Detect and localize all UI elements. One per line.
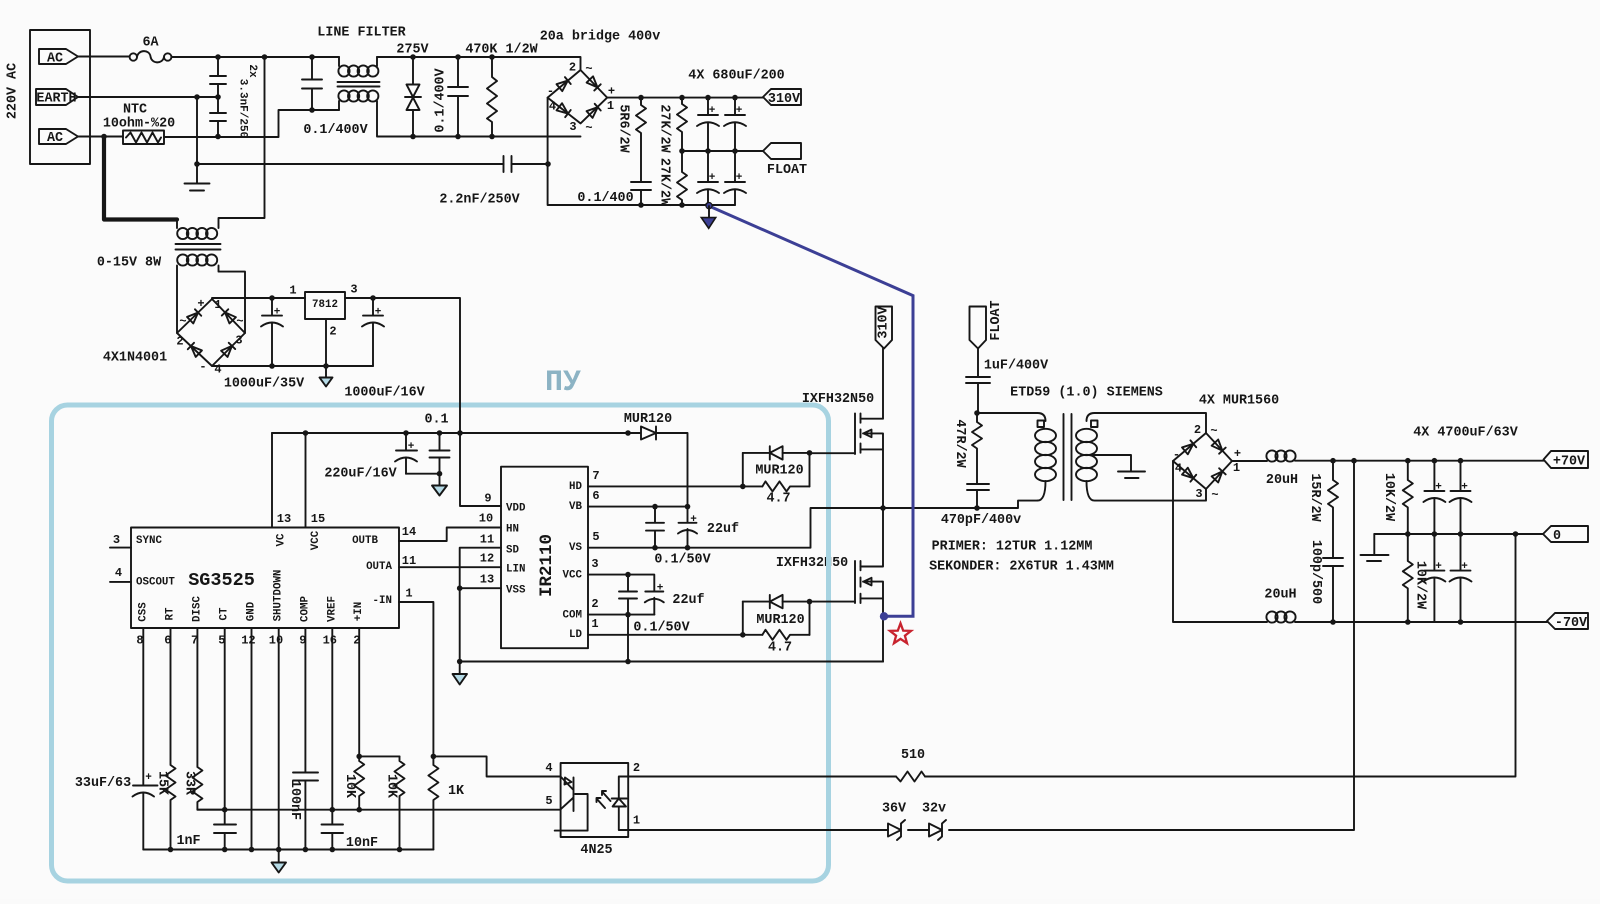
svg-text:100p/500: 100p/500	[1308, 540, 1323, 604]
wire zeners link	[908, 829, 929, 831]
annotation red star	[890, 623, 911, 643]
svg-text:-IN: -IN	[373, 595, 392, 607]
svg-text:1: 1	[591, 617, 598, 631]
svg-text:5: 5	[545, 794, 552, 808]
svg-text:15R/2W: 15R/2W	[1307, 473, 1322, 522]
svg-text:-: -	[547, 85, 554, 99]
capacitor 220uF/16V	[396, 433, 417, 474]
svg-text:14: 14	[402, 525, 416, 539]
svg-text:HN: HN	[506, 524, 519, 536]
svg-text:0: 0	[1553, 529, 1561, 544]
svg-text:33uF/63: 33uF/63	[75, 776, 131, 791]
transistor Q2 drain lead	[861, 508, 884, 567]
resistor 15R/2W	[1328, 461, 1338, 558]
pin 2 +IN down	[358, 628, 360, 756]
svg-text:ETD59 (1.0) SIEMENS: ETD59 (1.0) SIEMENS	[1010, 386, 1163, 401]
port FLOAT (vertical tag)	[970, 307, 987, 349]
annotation navy junction dot at arrow	[706, 203, 712, 209]
svg-text:+: +	[1234, 447, 1241, 461]
wire EARTH drop	[196, 97, 198, 164]
svg-text:COM: COM	[563, 610, 582, 622]
fuse F1 6A	[130, 53, 137, 60]
svg-text:220V AC: 220V AC	[6, 63, 21, 119]
pin 2 COM wire	[588, 614, 654, 616]
svg-text:22uf: 22uf	[707, 522, 739, 537]
port 310V	[763, 89, 801, 105]
bridge 1N4001 diode bottom-right	[221, 343, 235, 357]
svg-text:+: +	[1435, 482, 1442, 494]
wire -IN down	[399, 602, 433, 756]
svg-text:MUR120: MUR120	[756, 613, 804, 628]
wire aux bridge minus rail	[212, 365, 373, 368]
bridge rectifier 4X MUR1560 diamond	[1173, 433, 1232, 489]
svg-text:SHUTDOWN: SHUTDOWN	[273, 570, 285, 622]
svg-text:+: +	[197, 297, 204, 311]
svg-text:OUTA: OUTA	[366, 561, 392, 573]
svg-text:6A: 6A	[142, 36, 159, 51]
capacitor 4700uF/63V #2	[1451, 461, 1471, 534]
inductor 20uH upper	[1266, 450, 1277, 461]
line filter choke core	[338, 82, 380, 87]
pin 7 HD wire	[588, 485, 762, 487]
inductor line filter choke top winding	[338, 57, 340, 66]
wire earth line to 2.2nF	[197, 163, 504, 165]
svg-text:0.1/50V: 0.1/50V	[654, 553, 711, 568]
resistor 27K/2W lower	[677, 151, 687, 205]
svg-text:CSS: CSS	[137, 602, 149, 622]
transistor Q2 body-source leads	[861, 582, 884, 662]
wire choke lower left	[338, 101, 340, 110]
pin 12 GND	[251, 628, 253, 850]
svg-text:+: +	[1435, 561, 1442, 573]
svg-text:2x: 2x	[246, 64, 258, 78]
resistor 10K/2W upper	[1403, 461, 1413, 534]
svg-text:4: 4	[115, 566, 122, 580]
inductor line filter choke bottom winding	[338, 90, 349, 101]
resistor 4.7 high side	[762, 481, 809, 491]
annotation arrow at cap bank	[708, 205, 710, 217]
svg-text:16: 16	[323, 634, 337, 648]
svg-text:3: 3	[350, 283, 357, 297]
svg-text:+IN: +IN	[353, 602, 365, 621]
svg-text:15K: 15K	[155, 771, 170, 796]
transistor Q1 drain lead	[861, 349, 884, 419]
transformer T1 core	[176, 244, 221, 250]
svg-text:IR2110: IR2110	[537, 534, 557, 597]
wire AC2 rail	[164, 110, 339, 137]
capacitor 22uf low side	[645, 592, 663, 615]
svg-text:0.1/400: 0.1/400	[577, 191, 633, 206]
svg-text:27K/2W: 27K/2W	[657, 158, 672, 207]
annotation navy line	[709, 206, 913, 616]
svg-text:310V: 310V	[768, 92, 801, 107]
resistor 5R6/2W	[636, 98, 646, 182]
svg-text:11: 11	[402, 554, 416, 568]
pin 7 DISC with resistor 33R	[192, 628, 224, 810]
svg-text:5R6/2W: 5R6/2W	[616, 104, 631, 153]
wire +IN node link	[359, 755, 399, 757]
port +70V	[1544, 451, 1589, 468]
resistor 27K/2W upper	[677, 98, 687, 151]
transistor Q1 body arrow	[863, 430, 873, 438]
bridge 20A diode top-right	[587, 76, 601, 90]
capacitor 1000uF/16V	[363, 298, 383, 366]
capacitor 0.1/50V high side	[646, 507, 664, 548]
svg-text:1: 1	[405, 587, 412, 601]
wire 0V rail	[1374, 533, 1543, 535]
svg-text:10: 10	[479, 512, 493, 526]
svg-text:100nF: 100nF	[287, 780, 302, 820]
transformer T2 secondary bottom lead	[1087, 481, 1207, 501]
resistor 10K (left)	[354, 756, 364, 809]
capacitor 680uF/200 #1 top	[698, 98, 718, 151]
svg-text:3: 3	[1195, 487, 1202, 501]
transformer T2 primary polarity square	[1038, 421, 1045, 428]
wire 2.2nF to bridge minus	[512, 163, 549, 165]
svg-text:12: 12	[241, 634, 255, 648]
svg-text:SG3525: SG3525	[188, 570, 255, 591]
wire ground rail IR2110	[460, 661, 883, 663]
capacitor 1uF/400V	[966, 349, 990, 414]
svg-text:20uH: 20uH	[1266, 473, 1298, 488]
wire 7812 out to PU	[345, 298, 460, 433]
varistor 275V	[405, 57, 421, 137]
capacitor 4700uF/63V #4	[1451, 534, 1471, 622]
bridge 20A diode top-left	[557, 77, 571, 91]
svg-text:+: +	[375, 307, 382, 319]
pin 5 CT with capacitor 1nF	[214, 628, 236, 850]
svg-text:1: 1	[633, 814, 640, 828]
port AC (bottom)	[39, 129, 78, 144]
svg-text:+: +	[657, 583, 664, 595]
svg-text:HD: HD	[569, 481, 582, 493]
svg-text:EARTH: EARTH	[36, 92, 76, 107]
svg-text:1000uF/16V: 1000uF/16V	[344, 386, 425, 401]
svg-text:9: 9	[299, 634, 306, 648]
zener diode 32v	[929, 820, 946, 840]
svg-text:10nF: 10nF	[346, 836, 378, 851]
transformer T2 secondary winding	[1076, 429, 1097, 442]
wire 1K node to 4N25 pin4	[433, 756, 560, 776]
svg-text:~: ~	[179, 315, 186, 329]
svg-text:SEKONDER: 2X6TUR 1.43MM: SEKONDER: 2X6TUR 1.43MM	[929, 560, 1114, 575]
svg-text:IXFH32N50: IXFH32N50	[802, 392, 874, 407]
svg-text:15: 15	[311, 512, 325, 526]
resistor 470K 1/2W	[487, 57, 497, 137]
svg-text:3: 3	[113, 533, 120, 547]
svg-text:COMP: COMP	[299, 596, 311, 622]
wire secondary left to aux bridge	[176, 266, 178, 334]
resistor 47R/2W	[972, 413, 982, 484]
capacitor 0.1 (PU rail)	[430, 433, 450, 474]
svg-text:2: 2	[353, 634, 360, 648]
svg-text:4X1N4001: 4X1N4001	[103, 351, 167, 366]
wire COM to ground rail	[627, 615, 629, 662]
svg-text:10K: 10K	[342, 774, 357, 799]
pin 3 VCC wire	[588, 575, 654, 592]
capacitor 680uF/200 #3 bottom	[698, 151, 718, 205]
svg-text:4N25: 4N25	[580, 843, 612, 858]
transformer T1 secondary winding	[177, 254, 188, 265]
pin 16 VREF with capacitor 10nF	[322, 628, 344, 850]
svg-text:GND: GND	[246, 601, 258, 621]
svg-text:NTC: NTC	[123, 103, 147, 118]
wire -70V rail	[1295, 621, 1547, 623]
pin 8 CSS with capacitor 33uF/63	[133, 628, 158, 850]
svg-text:0.1/400V: 0.1/400V	[303, 123, 368, 138]
svg-text:1nF: 1nF	[176, 834, 200, 849]
wire diode to gate low	[783, 602, 855, 635]
svg-text:5: 5	[592, 530, 599, 544]
svg-text:MUR120: MUR120	[624, 412, 672, 427]
svg-text:VSS: VSS	[506, 585, 526, 597]
transformer T2 primary winding	[1035, 429, 1056, 442]
svg-text:4X 4700uF/63V: 4X 4700uF/63V	[1413, 426, 1518, 441]
svg-text:12: 12	[480, 552, 494, 566]
svg-text:FLOAT: FLOAT	[767, 163, 807, 178]
bridge MUR1560 diode top-right	[1212, 440, 1226, 454]
pin 6 VB wire	[588, 506, 688, 508]
svg-text:3: 3	[569, 120, 576, 134]
capacitor 0.1/400V after varistor	[448, 57, 468, 137]
svg-text:+: +	[736, 172, 743, 184]
svg-text:IXFH32N50: IXFH32N50	[776, 556, 848, 571]
svg-text:-: -	[1173, 448, 1180, 462]
svg-text:36V: 36V	[882, 802, 907, 817]
transistor Q2 IXFH32N50 lower gate	[854, 561, 856, 603]
svg-text:2: 2	[633, 761, 640, 775]
svg-text:VCC: VCC	[563, 570, 583, 582]
capacitor 0.1/400 under 5R6	[631, 182, 651, 205]
pin 1 LD wire	[588, 634, 762, 636]
svg-text:4.7: 4.7	[766, 492, 790, 507]
svg-text:2.2nF/250V: 2.2nF/250V	[439, 193, 520, 208]
port AC (top)	[39, 49, 78, 64]
svg-text:0-15V 8W: 0-15V 8W	[97, 256, 162, 271]
capacitor C1 3.3nF/250 (upper)	[210, 57, 226, 97]
bridge rectifier 20A 400V diamond	[548, 70, 608, 123]
svg-text:13: 13	[480, 573, 494, 587]
optocoupler U5 4N25 body	[561, 763, 629, 837]
svg-text:0.1: 0.1	[424, 413, 448, 428]
svg-text:1: 1	[214, 298, 221, 312]
svg-text:-: -	[199, 360, 206, 374]
port -70V	[1547, 613, 1588, 629]
inductor 20uH lower	[1266, 611, 1277, 622]
pin 15 VCC riser	[305, 433, 307, 528]
resistor 510	[896, 772, 925, 782]
wire thick AC2 drop to aux transformer	[104, 137, 177, 220]
svg-text:OUTB: OUTB	[352, 535, 378, 547]
svg-text:7: 7	[592, 469, 599, 483]
svg-text:+: +	[274, 307, 281, 319]
wire AC2 to NTC	[78, 136, 123, 138]
transformer T1 0-15V 8W primary winding	[176, 220, 178, 229]
wire HD riser to diode	[742, 453, 744, 487]
transistor Q2 body arrow	[863, 578, 873, 586]
capacitor 4700uF/63V #1	[1424, 461, 1444, 534]
svg-text:2: 2	[176, 335, 183, 349]
svg-text:8: 8	[136, 634, 143, 648]
wire OUTB to HN	[399, 528, 501, 542]
svg-text:+: +	[608, 85, 615, 99]
svg-text:510: 510	[901, 748, 925, 763]
wire choke lower right to rail	[377, 101, 581, 137]
svg-text:5: 5	[218, 634, 225, 648]
svg-text:+: +	[736, 105, 743, 117]
wire AC1 rail	[171, 56, 339, 58]
svg-text:3: 3	[235, 334, 242, 348]
pin 4 OSCOUT stub	[110, 581, 131, 583]
svg-text:VB: VB	[569, 501, 582, 513]
svg-text:6: 6	[164, 634, 171, 648]
svg-text:~: ~	[1211, 488, 1218, 502]
transistor Q1 IXFH32N50 upper gate	[854, 413, 856, 454]
svg-text:0.1/50V: 0.1/50V	[633, 621, 690, 636]
pin 3 SYNC stub	[110, 547, 131, 549]
wire ground rail corner	[882, 661, 883, 663]
wire pin5 net	[197, 809, 560, 811]
4N25 light arrows	[597, 791, 611, 808]
svg-text:VDD: VDD	[506, 503, 526, 515]
bridge 1N4001 diode top-left	[187, 309, 201, 323]
svg-text:VCC: VCC	[310, 530, 322, 550]
wire secondary right to aux bridge	[219, 266, 246, 334]
wire feedback +70V to zeners	[949, 461, 1354, 830]
svg-text:4.7: 4.7	[768, 641, 792, 656]
svg-text:470pF/400v: 470pF/400v	[941, 513, 1021, 528]
wire aux bridge plus to 7812	[212, 298, 305, 299]
svg-text:PRIMER: 12TUR 1.12MM: PRIMER: 12TUR 1.12MM	[932, 540, 1093, 555]
capacitor 100p/500	[1323, 558, 1343, 622]
wire PU ground rail	[143, 849, 433, 851]
input connector box 220V AC	[30, 30, 90, 164]
svg-text:10K/2W: 10K/2W	[1413, 561, 1428, 610]
transformer T2 core	[1064, 414, 1072, 500]
wire VCC rail 12V	[272, 432, 628, 434]
svg-text:1000uF/35V: 1000uF/35V	[224, 377, 305, 392]
port FLOAT	[763, 143, 801, 159]
svg-text:+: +	[1461, 482, 1468, 494]
control-unit box PU (cyan rounded rectangle)	[52, 405, 829, 881]
svg-text:~: ~	[585, 121, 592, 135]
transformer T2 ETD59 primary top lead	[977, 413, 1046, 421]
svg-text:10K/2W: 10K/2W	[1381, 473, 1396, 522]
svg-text:AC: AC	[47, 131, 63, 146]
thermistor NTC 10ohm	[123, 131, 164, 145]
svg-text:CT: CT	[219, 607, 231, 620]
wire bridge minus to -70V rail	[1173, 461, 1267, 622]
wire center tap	[1091, 455, 1131, 472]
svg-text:AC: AC	[47, 52, 63, 67]
svg-text:SYNC: SYNC	[136, 535, 162, 547]
bridge MUR1560 diode bottom-left	[1182, 468, 1196, 482]
svg-text:RT: RT	[165, 607, 177, 620]
transformer T2 secondary polarity square	[1091, 421, 1098, 428]
svg-text:VC: VC	[276, 533, 288, 546]
svg-text:3.3nF/250: 3.3nF/250	[237, 79, 249, 138]
transformer T2 primary bottom lead	[1038, 481, 1046, 501]
svg-text:+: +	[408, 441, 415, 453]
pin 10 SHUTDOWN	[278, 628, 280, 850]
svg-text:0.1/400V: 0.1/400V	[434, 67, 449, 132]
annotation navy dot	[880, 612, 888, 620]
diode MUR120 bootstrap	[628, 427, 656, 440]
capacitor 680uF/200 #4 bottom	[725, 151, 745, 205]
capacitor 1000uF/35V	[262, 298, 282, 366]
svg-text:1K: 1K	[448, 784, 465, 799]
svg-text:4X MUR1560: 4X MUR1560	[1199, 394, 1279, 409]
svg-text:+70V: +70V	[1553, 455, 1586, 470]
label IXFH32N50 lower (under blue box edge)	[776, 556, 848, 571]
svg-text:7812: 7812	[312, 299, 338, 311]
svg-text:20a bridge 400v: 20a bridge 400v	[540, 30, 661, 45]
svg-text:+: +	[690, 514, 697, 526]
pin 9 VDD wire	[460, 433, 501, 506]
wire 7812 gnd pin2	[325, 319, 327, 366]
capacitor 0.1/400V line filter input	[302, 57, 322, 110]
wire 510 to 4N25 pin2	[628, 776, 896, 778]
wire zener to 4N25 pin1	[628, 829, 888, 831]
svg-text:33R: 33R	[182, 771, 197, 796]
port 0	[1543, 526, 1588, 542]
transformer T2 secondary top lead	[1087, 413, 1207, 433]
wire OUTA to LIN	[399, 566, 501, 568]
ground triangle IR2110	[453, 662, 468, 685]
transistor Q1 body-source leads	[861, 433, 884, 508]
diode MUR120 high side	[743, 446, 783, 459]
bridge MUR1560 diode bottom-right	[1212, 468, 1226, 482]
wire AC1 drop to aux primary	[219, 57, 265, 228]
transistor Q1 channel dashes	[860, 413, 862, 452]
capacitor 0.1/50V low side	[619, 575, 637, 615]
wire EARTH	[78, 96, 218, 98]
wire 310V rail	[607, 97, 763, 99]
svg-text:20uH: 20uH	[1264, 588, 1296, 603]
resistor 10K (right)	[395, 756, 405, 849]
svg-text:2: 2	[569, 61, 576, 75]
svg-text:10: 10	[269, 634, 283, 648]
svg-text:11: 11	[480, 533, 494, 547]
wire feedback 0V to 510	[925, 534, 1516, 777]
resistor 1K	[428, 756, 438, 849]
svg-text:LD: LD	[569, 629, 582, 641]
wire bootstrap to VB	[656, 433, 688, 507]
pin 13 VC riser	[271, 433, 273, 528]
svg-text:13: 13	[277, 512, 291, 526]
port 310V (vertical tag)	[876, 307, 893, 349]
svg-text:2: 2	[591, 597, 598, 611]
zener diode 36V	[888, 820, 905, 840]
svg-text:6: 6	[592, 489, 599, 503]
bridge 20A diode bottom-right	[587, 104, 601, 118]
ground triangle PU rail	[432, 474, 447, 496]
ground symbol 0V	[1361, 534, 1389, 561]
ground triangle aux	[320, 366, 333, 387]
svg-text:+: +	[1461, 561, 1468, 573]
svg-text:FLOAT: FLOAT	[989, 300, 1004, 340]
svg-text:22uf: 22uf	[672, 593, 704, 608]
svg-text:-70V: -70V	[1555, 616, 1588, 631]
svg-text:~: ~	[585, 62, 592, 76]
regulator U2 7812	[305, 292, 345, 319]
wire LD riser to diode	[742, 602, 744, 635]
transistor Q2 channel dashes	[860, 561, 862, 603]
svg-text:1: 1	[1233, 461, 1240, 475]
ground symbol center tap	[1118, 472, 1145, 479]
capacitor 470pF/400v	[967, 484, 989, 508]
capacitor 4700uF/63V #3	[1424, 534, 1444, 622]
